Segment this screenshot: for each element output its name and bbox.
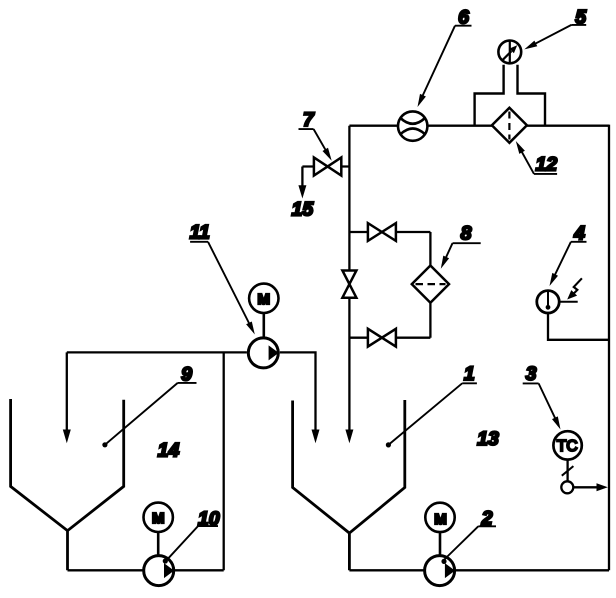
- svg-text:8: 8: [461, 223, 472, 245]
- arrow into tank 1 from main vertical: [345, 430, 353, 444]
- motor M of pump 2: [439, 532, 442, 556]
- breather housing box: [475, 65, 545, 126]
- svg-text:1: 1: [464, 363, 475, 385]
- wire main vertical line: [348, 126, 350, 431]
- sensor 4: [537, 291, 559, 313]
- valve main vertical: [342, 271, 356, 298]
- pump 11: [248, 338, 278, 368]
- svg-text:11: 11: [190, 222, 210, 244]
- svg-text:3: 3: [526, 363, 537, 385]
- gauge 5: [498, 41, 521, 64]
- wire bypass right vertical: [429, 232, 431, 338]
- sensor 4 stem: [548, 313, 609, 340]
- arrow into tank 14: [66, 352, 68, 430]
- left loop right vertical: [223, 352, 225, 570]
- wire bypass bottom branch: [349, 337, 430, 339]
- wire right vertical main: [608, 125, 610, 571]
- arrow node to main line: [574, 486, 597, 488]
- lightning signal arrow into sensor 4: [573, 278, 582, 295]
- svg-text:12: 12: [535, 154, 557, 176]
- tank 9 (14): [11, 399, 124, 570]
- valve 7 stub wire: [302, 167, 349, 187]
- valve 7 drain arrow 15: [298, 185, 306, 198]
- svg-text:15: 15: [292, 199, 315, 221]
- left loop top line: [67, 351, 247, 353]
- svg-text:13: 13: [477, 428, 499, 450]
- valve bypass top: [368, 223, 396, 241]
- valve bypass bottom: [368, 329, 396, 347]
- pump 2: [425, 556, 455, 586]
- filter 8 diamond: [412, 266, 449, 303]
- pump 10: [144, 556, 174, 586]
- svg-text:7: 7: [303, 109, 315, 131]
- controller TC 3: [553, 431, 581, 459]
- pump 11 wire right and into tank 1: [280, 352, 316, 430]
- svg-text:M: M: [258, 291, 271, 308]
- motor M of pump 11: [262, 314, 265, 338]
- wire bypass top branch: [349, 231, 430, 233]
- tank 1 (13): [293, 400, 405, 570]
- svg-text:M: M: [434, 511, 447, 528]
- wire bottom line right loop: [349, 569, 609, 571]
- signal line TC to node with slash: [566, 460, 568, 482]
- valve 7: [314, 158, 341, 176]
- left loop bottom line: [68, 569, 224, 571]
- svg-text:M: M: [152, 510, 165, 527]
- wire main top line: [349, 125, 609, 127]
- motor M of pump 10: [157, 532, 160, 556]
- node circle: [561, 481, 573, 493]
- flow meter 6: [398, 111, 427, 140]
- filter 12 diamond: [492, 108, 527, 143]
- svg-text:14: 14: [158, 440, 180, 462]
- svg-text:TC: TC: [557, 438, 578, 455]
